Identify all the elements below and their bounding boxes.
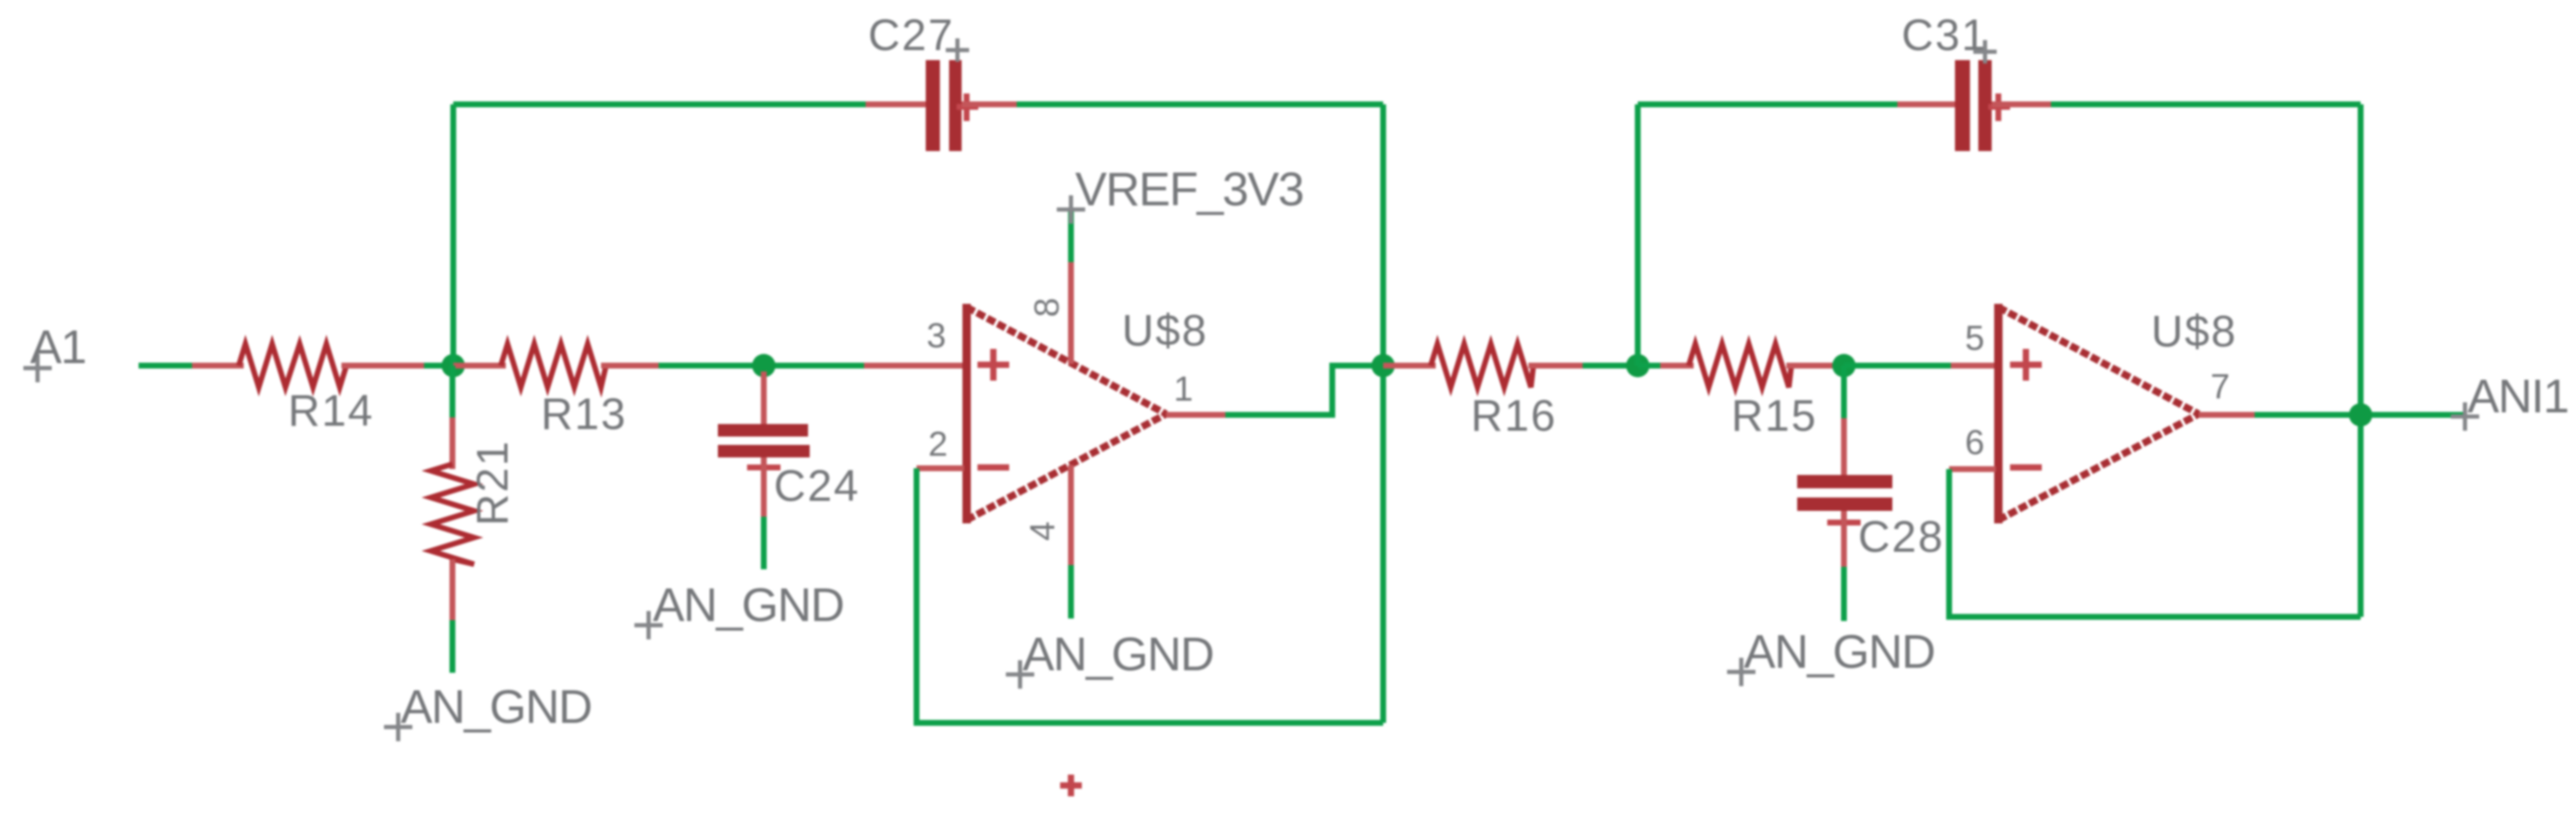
pin 2 lead (917, 466, 964, 472)
svg-text:4: 4 (1023, 522, 1062, 541)
wire feedback1 top right (1017, 102, 1383, 108)
wire output2 to ANI1 (2255, 412, 2466, 418)
wire feedback1 top (453, 102, 866, 108)
wire R16 to J4 (1583, 363, 1660, 369)
svg-text:C28: C28 (1858, 513, 1944, 562)
wire J5 to pin5 (1844, 363, 1951, 369)
capacitor C28 (1841, 366, 1847, 418)
part origin cross stage1 (1060, 775, 1082, 796)
svg-text:VREF_3V3: VREF_3V3 (1075, 163, 1303, 216)
svg-text:1: 1 (1174, 369, 1193, 408)
ground AN_GND under R21 (384, 713, 412, 741)
capacitor C31 (1897, 102, 1957, 108)
wire feedback2 right vertical (2358, 104, 2364, 617)
pin number 8 (1027, 298, 1066, 317)
svg-text:U$8: U$8 (1122, 306, 1208, 356)
pin 4 wire (1068, 465, 1074, 565)
svg-text:A1: A1 (30, 321, 86, 374)
resistor R14 (192, 363, 244, 369)
svg-text:AN_GND: AN_GND (401, 680, 592, 734)
resistor R21 (450, 366, 456, 417)
svg-text:R21: R21 (468, 440, 518, 526)
wire R13 to pin3 (659, 363, 864, 369)
capacitor C24 (761, 371, 767, 424)
pin number 4 (1023, 522, 1062, 541)
svg-text:C27: C27 (868, 11, 954, 60)
svg-text:ANI1: ANI1 (2467, 370, 2568, 423)
VREF_3V3 wire (1068, 210, 1074, 262)
junction J1 (442, 354, 465, 377)
pin 3 lead (864, 363, 964, 369)
junction J4 (1626, 354, 1649, 377)
svg-text:AN_GND: AN_GND (1744, 625, 1935, 679)
svg-text:7: 7 (2210, 366, 2230, 406)
svg-text:R16: R16 (1471, 391, 1557, 441)
svg-text:U$8: U$8 (2151, 307, 2237, 356)
svg-text:8: 8 (1027, 298, 1066, 317)
svg-text:3: 3 (927, 316, 946, 355)
pin 1 output lead (1166, 412, 1225, 418)
svg-text:R14: R14 (288, 386, 374, 436)
node A1 label (23, 354, 52, 382)
pin 5 lead (1951, 363, 1996, 369)
node ANI1 label (2451, 402, 2479, 431)
wire feedback1 right vertical through J3 down to bottom loop (1381, 104, 1386, 723)
junction J6 (2349, 403, 2372, 427)
wire feedback2 top right (2051, 102, 2361, 108)
wire to junction 1 (424, 363, 457, 369)
ground AN_GND under pin4 (1006, 660, 1034, 689)
svg-text:C24: C24 (774, 462, 860, 511)
resistor R16 (1383, 363, 1436, 369)
ground AN_GND under C28 (1727, 658, 1755, 686)
svg-text:AN_GND: AN_GND (1023, 628, 1214, 681)
wire feedback2 top (1638, 102, 1897, 108)
op-amp U2 stage2 (1998, 304, 2199, 523)
junction J2 (752, 354, 775, 377)
junction J3 (1371, 354, 1395, 377)
svg-text:2: 2 (928, 424, 947, 463)
wire A1 input (139, 363, 192, 369)
wire feedback2 left vertical (1635, 104, 1641, 366)
wire output1 (1225, 366, 1383, 415)
pin 6 lead (1949, 467, 1996, 472)
resistor R15 (1638, 363, 1663, 369)
capacitor C27 (866, 102, 928, 108)
svg-text:5: 5 (1965, 318, 1984, 357)
svg-text:AN_GND: AN_GND (653, 578, 844, 632)
svg-text:R13: R13 (541, 390, 627, 439)
wire feedback1 left vertical (451, 104, 457, 366)
node VREF_3V3 label (1057, 195, 1085, 224)
svg-text:R15: R15 (1731, 391, 1817, 441)
wire feedback1 bottom loop (917, 468, 1383, 723)
resistor R13 (453, 363, 506, 369)
op-amp U1 stage1 (967, 304, 1166, 523)
junction J5 (1832, 354, 1856, 377)
wire feedback2 bottom loop (1949, 469, 2361, 617)
svg-text:6: 6 (1965, 422, 1984, 462)
pin 7 output lead (2199, 412, 2255, 418)
ground AN_GND under C24 (634, 611, 663, 639)
